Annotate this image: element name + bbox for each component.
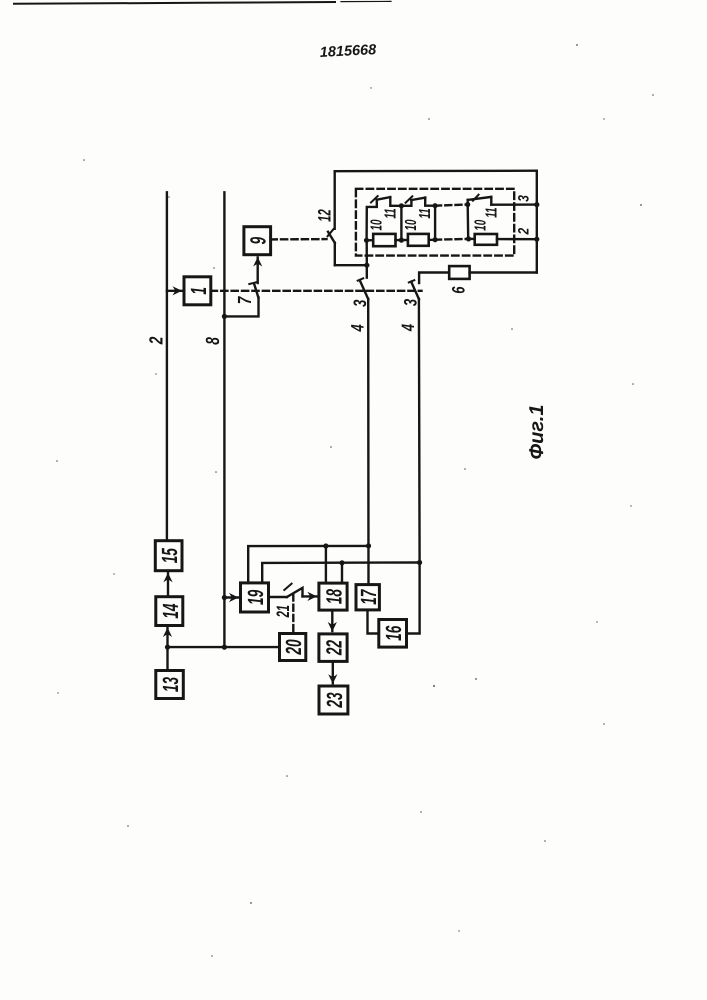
- block 19: [241, 583, 269, 612]
- svg-text:19: 19: [243, 589, 268, 605]
- node: line B end on line 4 right: [417, 560, 422, 565]
- svg-text:6: 6: [448, 286, 468, 294]
- label 3 (left switch): [350, 300, 370, 307]
- resistor unit outer frame: left edge lower: [334, 243, 336, 265]
- svg-text:14: 14: [158, 604, 183, 619]
- cell 3: wire right lead to rail: [490, 197, 492, 205]
- block 15: [155, 541, 182, 571]
- cell 1: resistor 10: [373, 234, 395, 246]
- svg-text:11: 11: [483, 207, 500, 217]
- wire: line A from block 19 top to line 4 left: [248, 546, 368, 583]
- paper speckles (scan noise): [56, 44, 654, 957]
- block 16: [379, 620, 407, 648]
- node: rail2 right of cell2: [433, 237, 438, 242]
- node: rail2 left of cell3: [466, 236, 471, 241]
- svg-text:12: 12: [314, 209, 334, 221]
- block 17: [356, 585, 381, 610]
- cell 2: contact tick: [406, 196, 413, 202]
- svg-text:16: 16: [381, 625, 406, 641]
- svg-text:11: 11: [383, 208, 400, 218]
- wire: top rail to frame right edge (line 3): [491, 203, 537, 205]
- cell 1: switch 11 blade: [377, 197, 391, 200]
- block 13: [156, 671, 184, 699]
- svg-text:3: 3: [515, 195, 532, 202]
- svg-text:18: 18: [322, 589, 347, 605]
- cell 3: rail 2 segments: [469, 238, 475, 240]
- label 8 (bus): [203, 337, 224, 345]
- cell 1: contact tick: [371, 196, 378, 202]
- svg-text:17: 17: [356, 589, 381, 605]
- cell 2: wire right lead down to rail node: [425, 198, 435, 206]
- wire: arrow from line 2 into block 1: [167, 290, 182, 292]
- svg-text:9: 9: [246, 236, 271, 244]
- label 2 (bus): [147, 336, 168, 345]
- svg-text:2: 2: [147, 336, 168, 345]
- label 2 (bottom rail): [515, 227, 532, 235]
- node: top rail left of cell3: [465, 202, 470, 207]
- wire: frame bottom-right through resistor 6: [470, 271, 537, 273]
- wire: line 4 right (switch 3 down, to block 16): [407, 299, 420, 634]
- node: top rail junction cell1/cell2: [399, 203, 404, 208]
- node: junction line 8 end on horizontal: [222, 645, 227, 650]
- wire: dashed control line from block 1 to switches 3: [211, 290, 422, 292]
- svg-text:10: 10: [403, 219, 420, 230]
- svg-text:4: 4: [398, 324, 418, 332]
- resistor unit outer frame: left edge upper (to switch 12): [334, 171, 336, 229]
- wire: arrow block 22 to block 23: [332, 661, 334, 683]
- wire: arrow block 18 to block 22: [331, 610, 333, 631]
- wire: block 13 up to block 14 with arrow: [166, 647, 168, 670]
- block 18: [319, 583, 347, 610]
- wire: arrow from line 8 into block 19: [224, 596, 238, 598]
- block 20: [280, 634, 307, 661]
- svg-text:1815668: 1815668: [319, 42, 377, 61]
- switch 12 (in left edge): [328, 229, 335, 243]
- cell 1: wire right lead down to top-rail node: [390, 197, 401, 206]
- svg-text:1: 1: [186, 287, 211, 295]
- node: line B / block 18 branch: [339, 560, 344, 565]
- node: rail 3 at frame edge: [534, 202, 539, 207]
- node: line A / block 18 branch: [323, 543, 328, 548]
- block 1: [184, 277, 211, 305]
- cell 1: rail 2 segments: [366, 239, 373, 242]
- label 7 (switch): [235, 296, 256, 305]
- node: line A end on line 4 left: [366, 543, 371, 548]
- node: junction on 13-14 wire: [165, 645, 170, 650]
- wire: resistor 6 to switch 3 right: [419, 273, 449, 284]
- label 4 (right line): [398, 324, 418, 332]
- label 4 (left line): [348, 324, 368, 332]
- cell 2: resistor 10: [408, 234, 429, 246]
- title text 1815668: [319, 42, 377, 61]
- resistor unit outer frame: right edge: [536, 171, 538, 273]
- svg-text:10: 10: [369, 219, 386, 230]
- node: junction switch7 return on line 8: [222, 314, 227, 319]
- node: junction on line 8 at block 19 tap: [222, 595, 227, 600]
- label 21 (switch): [273, 605, 293, 618]
- node: rail 2 at frame edge: [534, 237, 539, 242]
- wire: dashed control link block 20 to switch 21: [292, 595, 294, 634]
- wire: frame bottom-left to rail 2 tap: [335, 264, 368, 266]
- switch 21 between blocks 19 and 18: [269, 584, 317, 597]
- block 22: [319, 634, 347, 662]
- svg-text:15: 15: [157, 548, 182, 564]
- block 14: [156, 597, 183, 626]
- switch 7 with arrow into block 9: [224, 258, 258, 317]
- cell 3 labels 10 and 11: [473, 207, 501, 230]
- cell 3: contact stub and tick: [467, 200, 469, 205]
- cell 2: wire between rails: [400, 206, 402, 240]
- switch 3 (left): [358, 265, 369, 299]
- figure caption: [526, 405, 548, 460]
- cell 3: vertical between rails: [467, 205, 470, 239]
- wire: branch down to block 18 top-right: [341, 563, 343, 583]
- svg-text:10: 10: [473, 220, 490, 231]
- cell 1 labels 10 and 11: [369, 208, 400, 230]
- wire: block 17 to block 16: [368, 610, 379, 634]
- cell 2: wire left lead to contact: [401, 200, 411, 206]
- cell 3: resistor 10: [475, 234, 497, 245]
- svg-text:22: 22: [322, 640, 347, 656]
- node: rail2 left end: [364, 238, 369, 243]
- wire: arrow block 14 to block 15: [167, 573, 169, 597]
- svg-text:23: 23: [322, 692, 347, 708]
- wire: rail2 tap down to switch 3 left: [366, 240, 368, 265]
- node: junction frame bottom / switch 3 left: [364, 263, 369, 268]
- svg-text:2: 2: [515, 227, 532, 235]
- label 3 (right switch): [401, 299, 421, 306]
- label 3 (top rail): [515, 195, 532, 202]
- cell 1: wire left lead from rail2 node up to contact: [367, 200, 377, 241]
- wire: dashed continuation rail 2: [435, 238, 469, 241]
- cell 3: switch 11 blade: [468, 197, 492, 200]
- svg-text:4: 4: [348, 324, 368, 332]
- wire: dashed control line from block 9 to switch 12: [271, 238, 327, 241]
- cell 2 labels 10 and 11: [403, 208, 434, 230]
- svg-text:Фиг.1: Фиг.1: [526, 405, 548, 460]
- block 9: [244, 227, 271, 255]
- block 23: [319, 686, 348, 714]
- resistor unit outer frame: top edge: [335, 169, 537, 172]
- svg-text:11: 11: [417, 208, 434, 218]
- svg-text:20: 20: [281, 639, 306, 655]
- svg-text:13: 13: [158, 677, 183, 692]
- cell 2: rail 2 segments: [401, 239, 408, 242]
- wire: dashed continuation top rail: [435, 205, 468, 206]
- wire: line B from block 19 top to line 4 right: [262, 563, 419, 583]
- dashed enclosure of resistor cells: [356, 189, 514, 256]
- node: rail2 cell1/cell2: [399, 238, 404, 243]
- wire: bus line 2 (vertical): [166, 192, 168, 540]
- svg-text:8: 8: [203, 337, 224, 345]
- cell 2: switch 11 blade: [411, 198, 425, 200]
- svg-text:21: 21: [273, 605, 293, 618]
- resistor 6: [448, 266, 469, 294]
- wire: line 4 left (switch 3 down to block 17): [367, 299, 370, 585]
- switch 3 (right): [409, 280, 419, 299]
- svg-text:3: 3: [401, 299, 421, 306]
- node: top rail right of cell2: [433, 203, 438, 208]
- cell 2: vertical to rail 2: [434, 206, 436, 240]
- scanner edge artifact top: [14, 1, 391, 3]
- svg-text:7: 7: [235, 296, 256, 305]
- wire: bus line 8 (vertical): [223, 192, 225, 647]
- wire: branch down to block 18 top-left: [325, 546, 327, 583]
- wire: horizontal junction line to block 20: [168, 646, 280, 648]
- label 12 (switch): [314, 209, 334, 221]
